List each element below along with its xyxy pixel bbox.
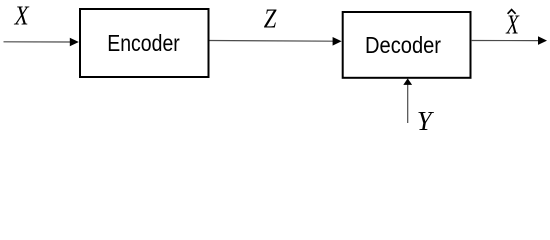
svg-text:Z: Z — [264, 4, 277, 34]
node X-hat label — [505, 9, 520, 39]
wire Z arrow (Encoder to Decoder) — [210, 37, 342, 46]
svg-text:Encoder: Encoder — [107, 30, 180, 56]
wire output arrow (Decoder to X-hat) — [472, 36, 547, 45]
node X label — [14, 1, 30, 31]
svg-text:Y: Y — [417, 106, 435, 136]
svg-text:X: X — [505, 9, 520, 39]
node Z label — [264, 4, 277, 34]
wire X input arrow — [4, 38, 79, 47]
node Y label — [417, 106, 435, 136]
block Encoder — [80, 9, 209, 77]
block Decoder — [343, 12, 471, 78]
svg-text:Decoder: Decoder — [365, 32, 441, 58]
wire Y input arrow (into Decoder bottom) — [403, 78, 412, 123]
svg-text:X: X — [14, 1, 30, 31]
